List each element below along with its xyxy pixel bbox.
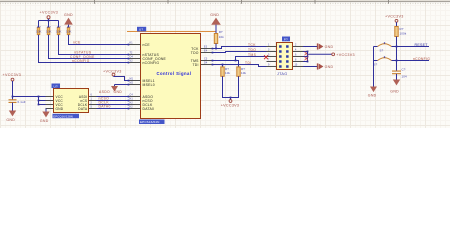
pin DATA (U2 right) — [78, 105, 96, 111]
ground GND (above R5) — [210, 13, 221, 34]
wire MSEL0 net — [115, 84, 129, 86]
pin nCSO (U1 left) — [128, 97, 153, 103]
svg-text:U?: U? — [54, 84, 58, 88]
svg-text:M2: M2 — [130, 81, 134, 84]
svg-text:O4: O4 — [130, 55, 134, 58]
wire VCC bus to pull-up resistors — [39, 20, 59, 22]
svg-text:8: 8 — [295, 58, 297, 61]
svg-text:TMS: TMS — [248, 53, 257, 57]
pin nCS (U2 right) — [80, 97, 96, 103]
wire nCSO net (U2 to U1) — [97, 100, 129, 102]
wire VCC tap to power port — [308, 52, 332, 55]
no-ERC marker near pin 8 — [305, 57, 309, 60]
svg-text:D4: D4 — [204, 61, 208, 64]
pin GND (U2 left) — [46, 107, 64, 111]
svg-text:6: 6 — [91, 93, 93, 96]
resistor R5 (TCK pull) — [214, 30, 224, 43]
svg-text:K2: K2 — [130, 105, 134, 108]
svg-text:+VCC3V3: +VCC3V3 — [385, 15, 404, 19]
svg-text:nCONFIG: nCONFIG — [143, 61, 160, 65]
op-amp U1 FPGA config block body — [141, 34, 201, 119]
text part number under U2 (selected) — [53, 114, 80, 119]
pin 1 (J1 left) — [267, 43, 282, 47]
svg-text:10k: 10k — [219, 35, 225, 39]
svg-text:S?: S? — [380, 49, 384, 53]
svg-text:10K: 10K — [56, 29, 62, 33]
svg-text:C?: C? — [402, 68, 406, 72]
designator P1 (selected) — [282, 37, 290, 42]
svg-text:K1: K1 — [130, 41, 134, 44]
svg-text:C4: C4 — [130, 93, 134, 96]
wire RESET net — [392, 46, 430, 48]
transistor-free switch S1 (push button, RESET) — [378, 42, 392, 52]
resistor R3 — [56, 25, 62, 35]
pin DATA0 (U1 left) — [128, 105, 155, 111]
wire ASDO net (U2 to U1) — [97, 96, 129, 98]
pin DCLK (U1 left) — [128, 101, 153, 107]
svg-text:6: 6 — [295, 53, 297, 56]
resistor R7 (TMS pull-up) — [237, 67, 247, 76]
svg-text:H1: H1 — [130, 97, 134, 100]
no-ERC marker on pin 5 — [264, 55, 268, 59]
resistor R2 — [46, 25, 52, 35]
svg-text:DATA0: DATA0 — [143, 107, 155, 111]
svg-text:RESET: RESET — [415, 43, 429, 47]
text part number under U1 (selected) — [139, 120, 165, 125]
designator U1 (selected) — [137, 27, 146, 32]
svg-text:+VCC3V3: +VCC3V3 — [103, 69, 122, 73]
svg-text:2: 2 — [91, 101, 93, 104]
no-ERC marker near pin 4 — [305, 52, 309, 55]
svg-text:0.1uF: 0.1uF — [18, 100, 26, 104]
svg-text:nCONFIG: nCONFIG — [72, 59, 90, 63]
power port GND (right of J1, upper) — [317, 43, 333, 49]
svg-text:+VCC3V3: +VCC3V3 — [3, 73, 22, 77]
wire nCONFIG net (R1 to U1) — [39, 35, 129, 63]
wire R3 top lead — [58, 21, 60, 28]
designator U2 (selected) — [52, 84, 61, 89]
pin 8 (J1 right) — [286, 58, 303, 62]
svg-text:EPCS16/64N: EPCS16/64N — [140, 120, 159, 124]
wire TDI net (U1 to J1) — [213, 64, 267, 67]
svg-text:GND: GND — [56, 107, 64, 111]
pin 2 (J1 right) — [286, 43, 303, 47]
pin nCE (U1 left) — [128, 41, 151, 47]
wire switch S1 left lead — [374, 46, 378, 48]
svg-text:TDI: TDI — [192, 63, 198, 67]
svg-text:2: 2 — [295, 43, 297, 46]
pin nSTATUS (U1 left) — [128, 51, 160, 57]
svg-text:M1: M1 — [130, 77, 134, 80]
pin VCC 3 (U2 left) — [46, 103, 64, 107]
ground GND (MSEL0) — [111, 85, 118, 92]
svg-text:JTAG: JTAG — [277, 72, 287, 76]
svg-text:7: 7 — [268, 58, 270, 61]
svg-text:MSEL0: MSEL0 — [143, 83, 155, 87]
wire MSEL1 net — [114, 77, 129, 81]
svg-text:10k: 10k — [225, 71, 231, 75]
svg-text:GND: GND — [210, 13, 219, 17]
pin VCC 2 (U2 left) — [46, 99, 64, 103]
wire R5 bottom lead to TCK — [215, 44, 217, 50]
svg-text:S?: S? — [374, 63, 378, 67]
svg-text:5: 5 — [268, 53, 270, 56]
pin VCC 1 (U2 left) — [46, 95, 64, 99]
svg-text:5: 5 — [91, 105, 93, 108]
svg-text:nCE: nCE — [73, 41, 81, 45]
pin nCONFIG (U1 left) — [128, 59, 160, 65]
resistor R1 — [36, 25, 42, 35]
svg-text:TDO: TDO — [191, 51, 199, 55]
wire R2 top lead — [48, 21, 50, 28]
pin 4 (J1 right) — [286, 48, 303, 52]
power +VCC3V3 PWR2 (below R7/R8) — [221, 98, 240, 108]
wire R6 bottom to RESET node — [396, 37, 398, 48]
wire switches common to ground — [373, 47, 375, 87]
wire DCLK net (U2 to U1) — [97, 104, 129, 106]
svg-text:10K: 10K — [36, 29, 42, 33]
pin TCK (U1 right) — [191, 45, 213, 51]
power +VCC3V3 PWR3 (right of J1) — [332, 53, 355, 57]
svg-text:nCONFIG: nCONFIG — [413, 57, 430, 61]
svg-text:TCK: TCK — [248, 43, 256, 47]
svg-text:GND: GND — [6, 118, 15, 122]
svg-text:1: 1 — [91, 97, 93, 100]
svg-text:C3: C3 — [204, 57, 208, 60]
wire TDO net (U1 to J1) — [213, 52, 267, 53]
wire R1 top lead — [38, 21, 40, 28]
svg-text:DATA: DATA — [78, 107, 88, 111]
pin MSEL0 (U1 left) — [128, 81, 155, 87]
ground GND (below C2) — [390, 80, 400, 94]
svg-text:10k: 10k — [241, 71, 247, 75]
svg-text:1: 1 — [268, 43, 270, 46]
svg-text:U?: U? — [139, 28, 143, 32]
svg-text:GND: GND — [325, 45, 334, 49]
svg-text:GND: GND — [40, 119, 49, 123]
capacitor C2 — [392, 61, 407, 80]
svg-text:+VCC3V3: +VCC3V3 — [40, 11, 59, 15]
svg-text:DATA0: DATA0 — [99, 105, 111, 109]
power +VCC3V3 PWR4 (far left) — [3, 73, 22, 96]
svg-text:100k: 100k — [400, 32, 407, 36]
connector J1 JTAG header body — [277, 43, 293, 70]
svg-text:V2: V2 — [130, 59, 134, 62]
sheet border top — [0, 0, 450, 4]
power port GND (right of J1, lower) — [317, 63, 333, 69]
wire R7/R8 bottoms to power — [223, 76, 239, 98]
pin CONF_DONE (U1 left) — [128, 55, 167, 61]
wire nSTATUS net (R3 to U1) — [59, 35, 129, 55]
svg-text:9: 9 — [268, 63, 270, 66]
svg-text:T2: T2 — [130, 51, 134, 54]
svg-text:P?: P? — [284, 37, 288, 41]
wire VCC tie at U2 pins — [38, 96, 46, 106]
svg-text:+VCC3V3: +VCC3V3 — [221, 104, 240, 108]
pin TMS (U1 right) — [191, 57, 214, 63]
flash U2 body — [54, 89, 89, 113]
ground GND (top-left, above R4) — [64, 13, 73, 27]
svg-text:4: 4 — [295, 48, 297, 51]
ground GND (below C1) — [6, 111, 16, 122]
svg-text:ASDO: ASDO — [99, 90, 110, 94]
svg-text:10K: 10K — [46, 29, 52, 33]
wire U2 GND pin down — [45, 109, 47, 112]
svg-text:E3: E3 — [204, 45, 208, 48]
power +VCC3V3 PWR6 (reset circuit) — [385, 15, 404, 27]
svg-text:+VCC3V3: +VCC3V3 — [336, 53, 355, 57]
wire RESET to nCONFIG node — [396, 47, 398, 62]
pin 7 (J1 left) — [267, 58, 282, 62]
wire pin10 to GND port — [303, 66, 317, 68]
svg-text:10K: 10K — [66, 29, 72, 33]
pin ASDO (U1 left) — [128, 93, 154, 99]
ground GND (below U2) — [40, 112, 50, 123]
pin 5 (J1 left) — [267, 53, 282, 57]
wire nCONFIG net (right) — [392, 60, 430, 62]
svg-text:nCE: nCE — [143, 43, 151, 47]
wire TMS to R7 top — [236, 61, 239, 67]
wire DATA0 net (U2 to U1) — [97, 108, 129, 110]
resistor R6 100k pull-up — [395, 27, 407, 37]
wire CONF_DONE net (R2 to U1) — [49, 35, 129, 59]
svg-text:GND: GND — [368, 94, 377, 98]
pin DCLK (U2 right) — [78, 101, 97, 107]
wire TDI to R8 top — [222, 65, 224, 67]
svg-text:GND: GND — [390, 90, 399, 94]
svg-text:104: 104 — [402, 74, 408, 78]
svg-text:GND: GND — [64, 13, 73, 17]
wire nCE net (R4 to U1) — [69, 35, 129, 45]
svg-text:Control Signal: Control Signal — [157, 71, 192, 76]
ground GND (switches) — [368, 87, 377, 98]
svg-text:10: 10 — [295, 63, 298, 66]
wire switch S2 left lead — [374, 60, 378, 62]
svg-text:R?: R? — [219, 30, 223, 34]
svg-text:TDI: TDI — [245, 61, 252, 65]
wire VCC feed to U2 — [12, 96, 39, 98]
switch S2 (push button, nCONFIG) — [374, 56, 392, 66]
pin 6 (J1 right) — [286, 53, 303, 57]
pin 3 (J1 left) — [267, 48, 282, 52]
capacitor C1 — [9, 97, 26, 111]
pin MSEL1 (U1 left) — [128, 77, 155, 83]
svg-text:H2: H2 — [130, 101, 134, 104]
wire (orange) along U1 top edge — [127, 31, 216, 33]
pin TDI (U1 right) — [192, 61, 213, 67]
pin 9 (J1 left) — [267, 63, 282, 67]
resistor R8 (TDI pull-up) — [221, 67, 231, 76]
pin ASDI (U2 right) — [79, 93, 97, 99]
svg-text:3: 3 — [268, 48, 270, 51]
wire TCK net (U1 to J1) — [213, 47, 267, 49]
resistor R4 — [66, 25, 72, 35]
svg-text:E4: E4 — [204, 49, 208, 52]
svg-text:R?: R? — [400, 27, 404, 31]
wire pin2 to GND port — [303, 46, 317, 48]
pin TDO (U1 right) — [191, 49, 214, 55]
wire pins 4,6,8 tie — [303, 51, 308, 63]
wire TMS net (U1 to J1) — [213, 57, 267, 62]
svg-text:EPCQ16/128N: EPCQ16/128N — [53, 115, 73, 119]
power +VCC3V3 PWR1 (top-left) — [40, 11, 59, 21]
svg-text:GND: GND — [325, 65, 334, 69]
pin 10 (J1 right) — [286, 63, 303, 67]
svg-text:TDO: TDO — [248, 48, 256, 52]
power +VCC3V3 PWR5 (MSEL1) — [103, 69, 122, 76]
